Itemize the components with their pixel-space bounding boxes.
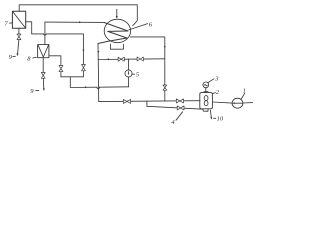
svg-text:10: 10 — [217, 116, 224, 123]
svg-text:6: 6 — [149, 21, 153, 28]
svg-text:9: 9 — [30, 88, 34, 95]
svg-text:2: 2 — [216, 89, 220, 96]
svg-text:1: 1 — [243, 87, 246, 94]
svg-text:8: 8 — [27, 56, 31, 63]
svg-text:7: 7 — [4, 21, 8, 28]
svg-text:9: 9 — [9, 54, 13, 61]
svg-text:3: 3 — [214, 76, 219, 83]
svg-text:4: 4 — [171, 119, 175, 126]
svg-text:5: 5 — [136, 72, 140, 79]
